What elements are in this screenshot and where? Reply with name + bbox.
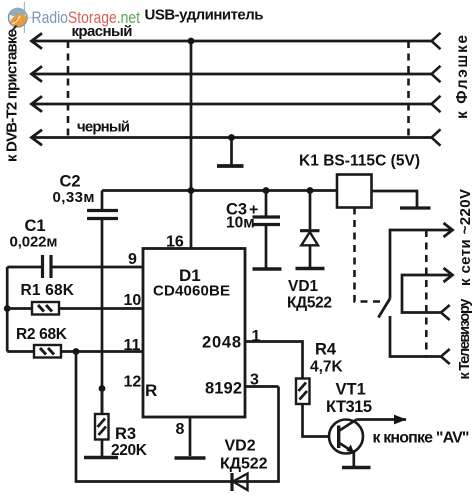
capacitor C3 10u	[253, 191, 281, 268]
svg-text:R2 68K: R2 68K	[16, 326, 68, 343]
arrow left W2	[32, 66, 43, 81]
switch lever	[378, 299, 390, 318]
ground bar VD1	[296, 267, 325, 271]
svg-text:КД522: КД522	[287, 295, 332, 312]
wire left bus C1/R1/R2	[6, 267, 9, 352]
arrow left W3	[32, 96, 43, 111]
+5V rail wire	[102, 189, 337, 192]
svg-text:VD1: VD1	[288, 278, 319, 295]
IC D1 CD4060BE body	[143, 249, 245, 418]
svg-text:10: 10	[124, 292, 142, 309]
resistor R3 220K	[95, 389, 109, 457]
svg-text:VT1: VT1	[336, 381, 366, 399]
node on W1	[188, 38, 195, 45]
resistor R1 68K	[7, 302, 143, 315]
svg-text:2048: 2048	[202, 334, 241, 352]
svg-text:к Флэшке: к Флэшке	[454, 35, 471, 119]
wire mains arrow 2	[402, 275, 450, 313]
relay K1 coil box	[337, 175, 372, 208]
svg-text:к Телевизору: к Телевизору	[457, 299, 473, 380]
arrow to AV button	[394, 415, 407, 425]
node pin12 junction	[99, 385, 106, 392]
wire relay coil to ground	[372, 191, 418, 207]
svg-text:КТ315: КТ315	[326, 398, 372, 416]
ground bar R3	[84, 456, 118, 460]
svg-text:0,022м: 0,022м	[10, 234, 58, 251]
wire pin1 2048 to R4	[245, 342, 303, 379]
svg-text:CD4060BE: CD4060BE	[153, 283, 230, 300]
svg-text:+: +	[249, 202, 258, 219]
arrow left W4	[32, 130, 43, 145]
connector fork right W2	[432, 66, 441, 82]
node R1 tap	[4, 305, 11, 312]
svg-text:черный: черный	[77, 119, 130, 136]
switch pole wire down to TV fork	[390, 316, 441, 357]
svg-text:220K: 220K	[111, 442, 148, 459]
wire +5V drop from W1 to pin16	[190, 41, 193, 249]
svg-text:0,33м: 0,33м	[53, 189, 95, 206]
capacitor C2	[87, 191, 118, 268]
wire collector to AV button	[357, 418, 407, 421]
node rail/C3	[263, 187, 270, 194]
svg-text:8192: 8192	[205, 380, 242, 398]
wire feedback from R2 node down and to VD2	[76, 352, 279, 482]
diode VD2	[232, 473, 248, 491]
arrow mains 1	[444, 223, 453, 237]
svg-text:R4: R4	[315, 341, 337, 359]
svg-text:КД522: КД522	[220, 456, 268, 473]
svg-text:16: 16	[166, 234, 184, 251]
svg-text:R1 68K: R1 68K	[21, 282, 75, 299]
wire GND tap on W4	[230, 138, 233, 165]
connector fork right W1	[432, 33, 441, 49]
svg-text:K1 BS-115C (5V): K1 BS-115C (5V)	[299, 153, 420, 170]
ground bar pin8	[175, 456, 206, 460]
svg-text:11: 11	[124, 337, 141, 354]
node rail/VD1	[307, 187, 314, 194]
svg-text:к сети ~220V: к сети ~220V	[457, 189, 474, 286]
svg-text:к DVB-T2 приставке: к DVB-T2 приставке	[4, 29, 21, 162]
wire pin8 to ground	[189, 417, 192, 456]
resistor R4 4,7K	[296, 379, 310, 405]
node R2 / feedback	[73, 348, 80, 355]
wire C2 vertical bus down to pin12 node	[101, 267, 104, 414]
connector fork TV2	[441, 349, 450, 364]
capacitor C1	[7, 255, 143, 278]
arrow left W1	[32, 33, 43, 48]
svg-text:3: 3	[250, 372, 259, 389]
svg-text:C2: C2	[60, 173, 81, 191]
wire W1 red (+5V) of USB cable	[32, 40, 432, 43]
left connector boundary dashed	[67, 41, 70, 138]
logo icon RadioStorage	[8, 2, 36, 33]
svg-text:VD2: VD2	[225, 438, 256, 455]
svg-text:8: 8	[176, 421, 185, 438]
arrow mains 2	[444, 268, 453, 282]
svg-text:R: R	[145, 381, 157, 400]
switch fixed contact wire to mains arrow	[390, 230, 450, 299]
wire W4 black (GND) of USB cable	[32, 136, 432, 139]
relay actuator dashed link	[355, 208, 382, 302]
svg-text:R3: R3	[115, 425, 136, 443]
wire emitter down	[352, 452, 355, 467]
ground bar under W4	[217, 164, 244, 168]
svg-text:4,7K: 4,7K	[310, 359, 344, 376]
wire W3 of USB cable	[32, 103, 432, 106]
wire R4 to base VT1	[303, 404, 331, 437]
connector fork right W3	[432, 96, 441, 112]
ground bar VT1 emitter	[342, 466, 371, 470]
svg-text:C1: C1	[25, 217, 46, 235]
node on W4	[228, 134, 235, 141]
ground bar C3	[253, 267, 282, 271]
right connector boundary dashed	[407, 41, 410, 138]
connector fork right W4	[432, 129, 441, 145]
node rail/pin16	[188, 187, 195, 194]
svg-text:красный: красный	[72, 23, 133, 40]
connector fork TV1	[441, 305, 450, 320]
wire W2 of USB cable	[32, 73, 432, 76]
svg-text:12: 12	[124, 374, 142, 391]
wire pin3 8192	[245, 385, 279, 388]
svg-text:9: 9	[128, 251, 137, 268]
svg-text:1: 1	[252, 328, 261, 345]
transistor VT1 KT315	[329, 420, 363, 454]
resistor R2 68K	[7, 345, 143, 358]
diode VD1	[300, 191, 320, 268]
right connector boundary dashed (mains/TV)	[425, 230, 428, 357]
svg-text:USB-удлинитель: USB-удлинитель	[145, 7, 264, 24]
svg-text:к кнопке "AV": к кнопке "AV"	[373, 430, 470, 447]
ground bar relay	[400, 206, 431, 209]
